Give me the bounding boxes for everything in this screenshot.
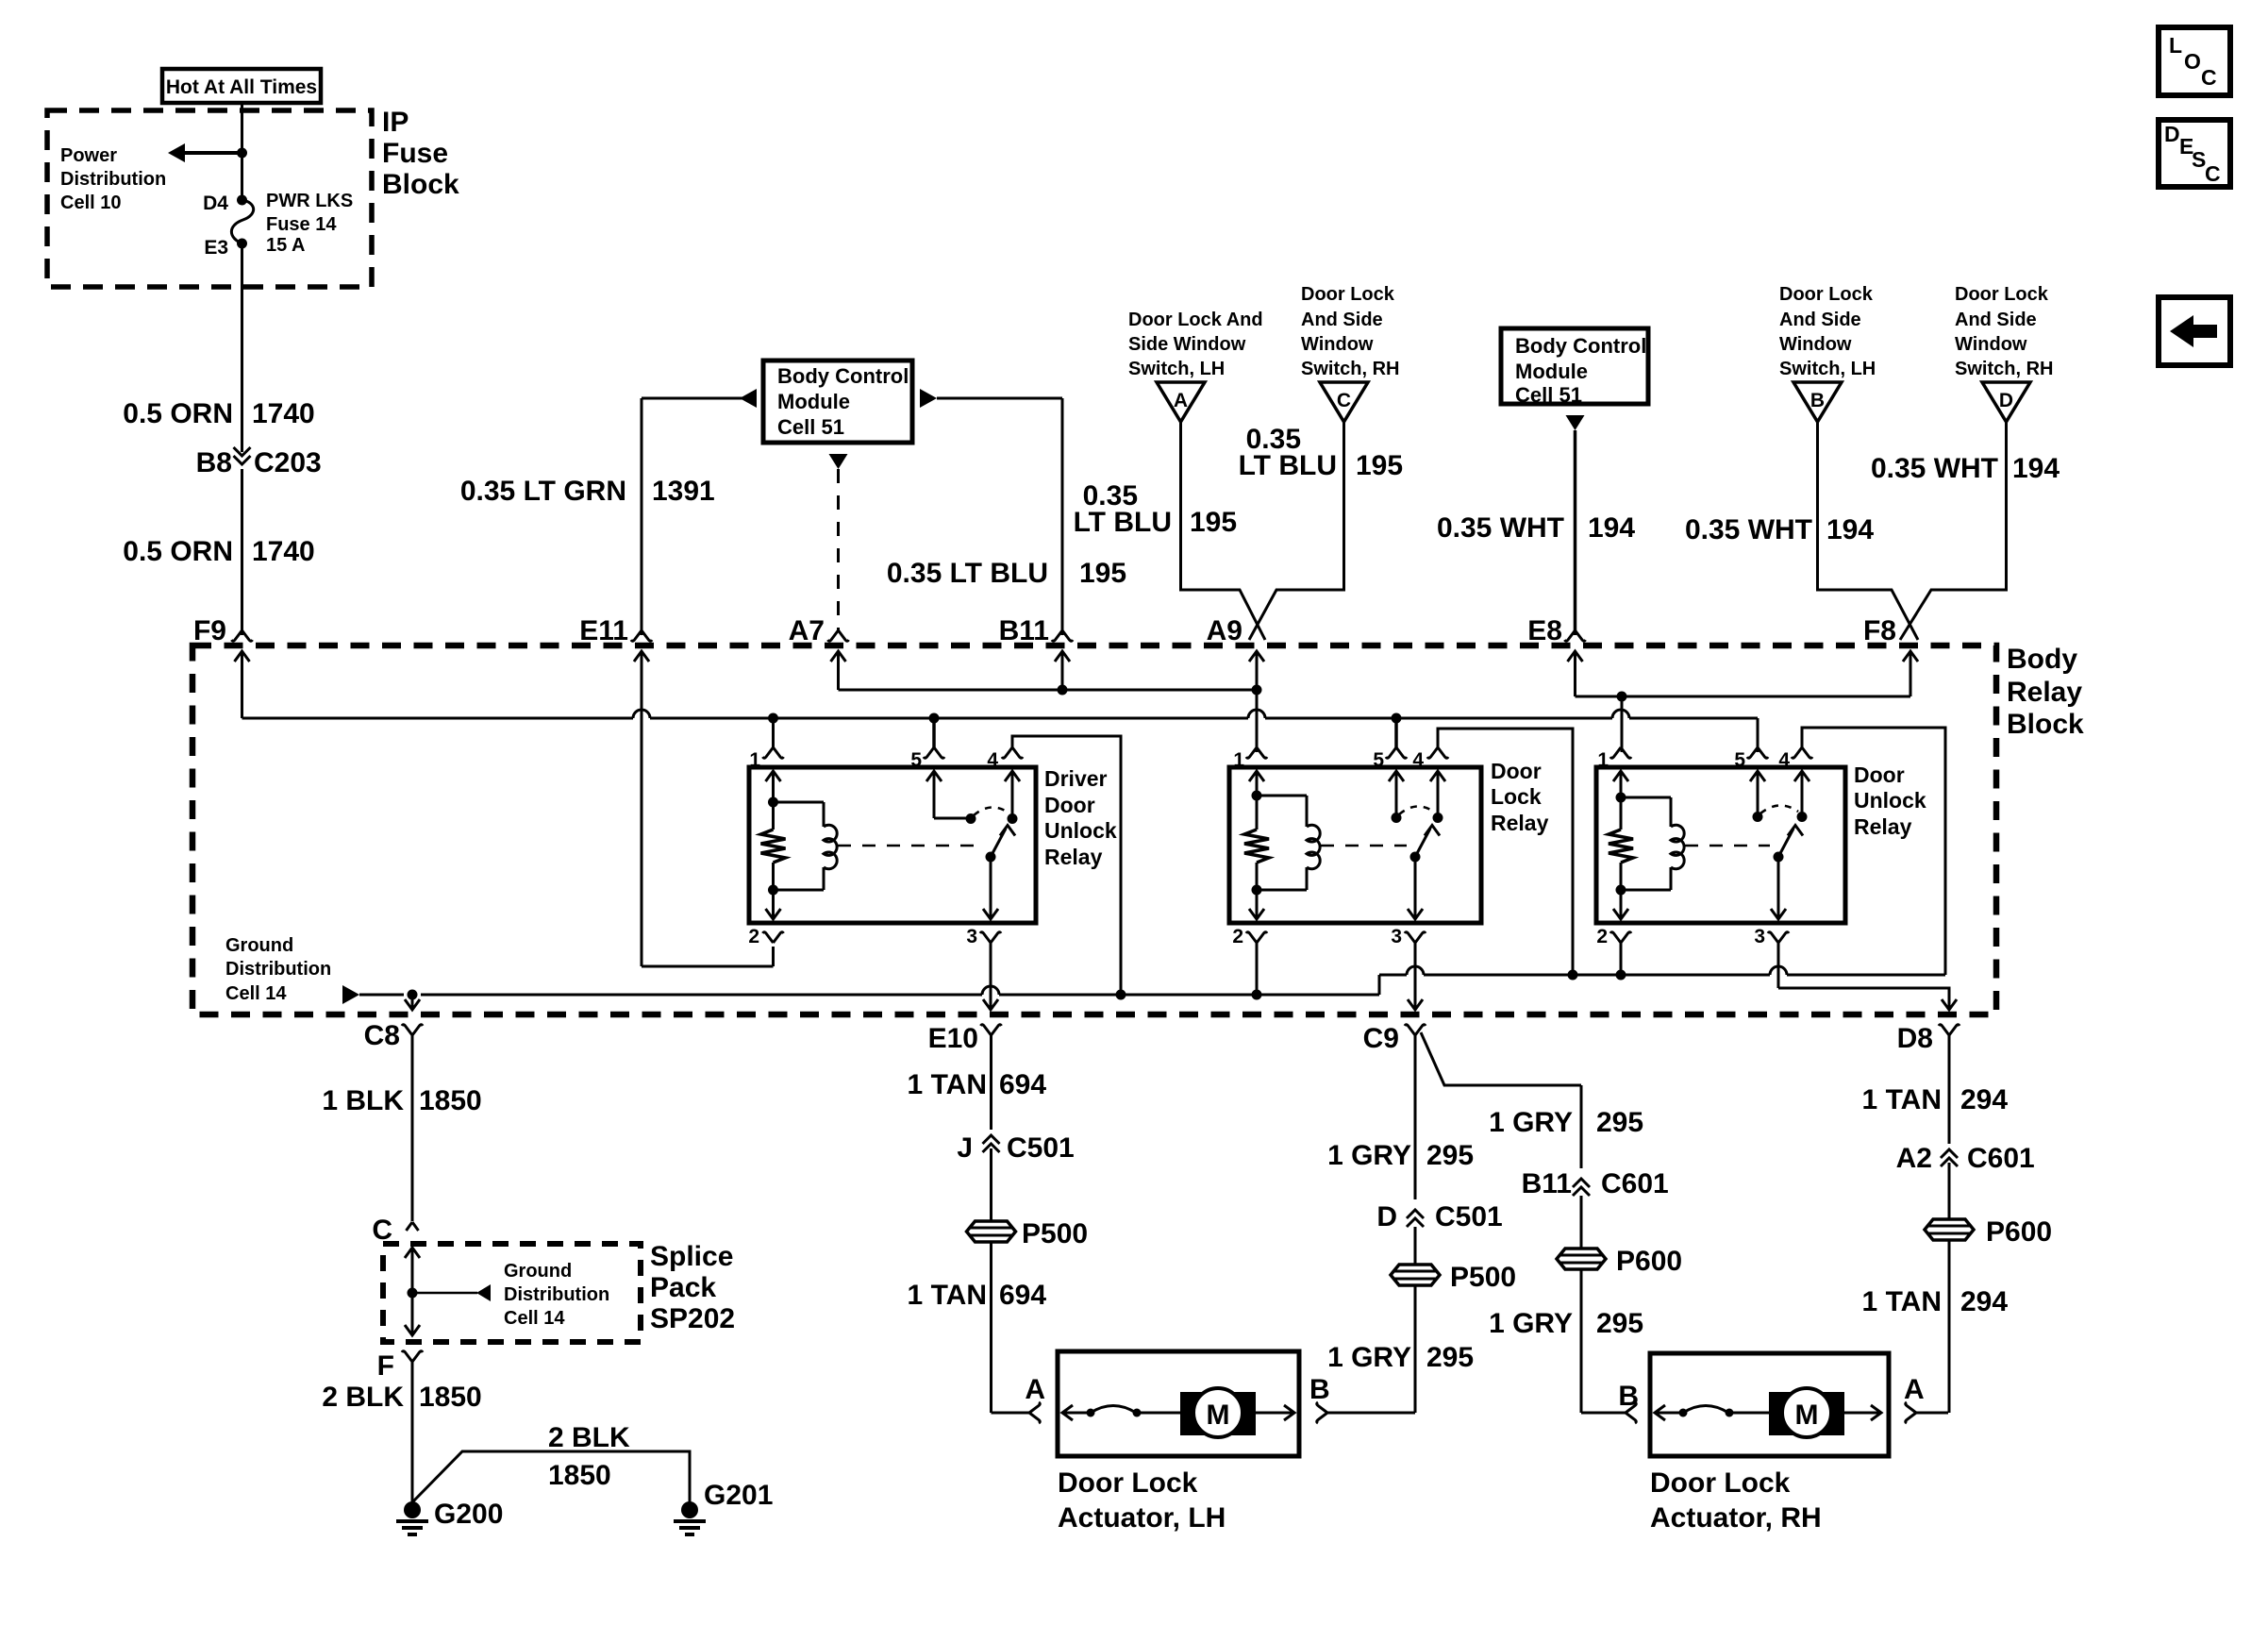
node: relay K2 pin4 to ground wire	[1568, 970, 1578, 981]
svg-text:C203: C203	[254, 447, 322, 478]
Splice Pack SP202 dashed box	[383, 1244, 641, 1342]
connector C601 pin B11 pass-through	[1522, 1168, 1669, 1199]
terminal A of LH actuator	[1025, 1374, 1045, 1405]
svg-text:1 GRY: 1 GRY	[1489, 1308, 1573, 1339]
relay K1 Driver Door Unlock Relay box	[749, 767, 1036, 923]
svg-text:D4: D4	[203, 193, 228, 214]
svg-text:Relay: Relay	[1854, 814, 1912, 839]
svg-text:294: 294	[1960, 1084, 2008, 1115]
label: Driver Door Unlock Relay	[1044, 766, 1117, 869]
wire: reference arrow to Ground Distribution Cell 14	[412, 1284, 491, 1301]
connector B11 at Body Relay Block	[999, 615, 1073, 646]
svg-text:Actuator, RH: Actuator, RH	[1650, 1502, 1822, 1534]
svg-text:PWR LKS: PWR LKS	[266, 191, 353, 211]
svg-text:P500: P500	[1450, 1262, 1516, 1293]
svg-text:5: 5	[1373, 749, 1384, 771]
LOC reference box	[2159, 27, 2230, 95]
motor M of RH actuator	[1769, 1388, 1844, 1437]
node: bus junction relay2 pin5	[1392, 713, 1402, 724]
svg-text:A7: A7	[789, 615, 825, 646]
relay K3 normally-open contact pin 4	[1794, 771, 1809, 822]
svg-text:1 TAN: 1 TAN	[908, 1069, 987, 1100]
wire: F9 entry into block / power bus	[235, 651, 1759, 752]
svg-text:1: 1	[749, 749, 760, 771]
off-page connector triangle A	[1157, 382, 1205, 422]
wire: feed to fuse terminal D4	[241, 153, 243, 200]
svg-text:2: 2	[748, 926, 759, 947]
RH actuator internal pin B arrow	[1655, 1405, 1681, 1420]
svg-text:Body Control: Body Control	[777, 364, 909, 388]
wire: E11 entry down to relay1 pin2 loop	[634, 651, 774, 966]
relay K2 contact dashed throw arc	[1399, 806, 1435, 814]
svg-text:Door Lock And: Door Lock And	[1128, 310, 1263, 330]
terminal B of LH actuator	[1309, 1374, 1415, 1423]
svg-text:194: 194	[2012, 453, 2060, 484]
svg-text:3: 3	[1754, 926, 1765, 947]
svg-text:Switch, LH: Switch, LH	[1779, 359, 1876, 379]
svg-text:A: A	[1904, 1374, 1925, 1405]
svg-text:295: 295	[1426, 1342, 1474, 1373]
LH actuator internal pin B arrow	[1256, 1405, 1294, 1420]
relay K2 coil branch with resistor	[1244, 771, 1269, 919]
svg-text:295: 295	[1426, 1140, 1474, 1171]
svg-text:A: A	[1025, 1374, 1045, 1405]
relay K1 pin 2	[748, 926, 783, 947]
off-page connector triangle B	[1793, 382, 1842, 422]
wire: E10 drop out of block from relay1 pin3	[983, 995, 998, 1010]
relay K1 coil branch with resistor	[761, 771, 786, 919]
connector E11 at Body Relay Block	[579, 615, 652, 646]
connector F below splice pack	[377, 1350, 423, 1382]
node: SP202 splice junction	[408, 1288, 418, 1299]
svg-text:1 GRY: 1 GRY	[1327, 1140, 1411, 1171]
svg-text:Distribution: Distribution	[504, 1284, 609, 1305]
svg-text:0.5 ORN: 0.5 ORN	[123, 398, 233, 429]
node: D4 fuse terminal	[203, 193, 247, 214]
svg-text:195: 195	[1190, 507, 1237, 538]
connector C501 pin D pass-through	[1376, 1201, 1502, 1232]
connector E10 at Body Relay Block bottom	[928, 1023, 1002, 1130]
wire: 0.5 ORN 1740 from C203 to F9	[241, 469, 243, 635]
label: 2 BLK 1850 (branch)	[548, 1422, 630, 1491]
relay K2 pin 2	[1232, 926, 1267, 995]
svg-text:0.35 LT BLU: 0.35 LT BLU	[887, 558, 1048, 589]
svg-text:694: 694	[999, 1280, 1046, 1311]
svg-text:SP202: SP202	[650, 1303, 735, 1334]
wire: 0.35 WHT 194 from switch D to F8	[1871, 422, 2060, 640]
svg-text:Block: Block	[2007, 709, 2084, 740]
grommet P600 (GRY)	[1557, 1246, 1682, 1277]
svg-text:C: C	[2201, 65, 2217, 90]
connector D8 at Body Relay Block bottom	[1897, 1023, 1959, 1054]
wire: 0.35 LT BLU 195 from switch C to A9	[1239, 422, 1403, 640]
svg-text:0.35 WHT: 0.35 WHT	[1871, 453, 1998, 484]
svg-text:C: C	[1337, 390, 1351, 411]
svg-text:B8: B8	[196, 447, 232, 478]
svg-text:D8: D8	[1897, 1023, 1933, 1054]
node: A9 junction on link	[1252, 685, 1262, 696]
svg-text:F9: F9	[193, 615, 226, 646]
svg-text:A2: A2	[1896, 1143, 1932, 1174]
DESC reference box	[2159, 120, 2230, 187]
label: 1 TAN 694 (upper)	[908, 1069, 1047, 1100]
svg-text:A: A	[1174, 390, 1188, 411]
svg-text:4: 4	[1412, 749, 1424, 771]
svg-text:1391: 1391	[652, 476, 715, 507]
svg-text:Distribution: Distribution	[225, 959, 331, 980]
svg-text:0.5 ORN: 0.5 ORN	[123, 536, 233, 567]
motor M of LH actuator	[1180, 1388, 1256, 1437]
svg-text:4: 4	[987, 749, 998, 771]
svg-text:Driver: Driver	[1044, 766, 1108, 791]
svg-text:2 BLK: 2 BLK	[548, 1422, 630, 1453]
relay K3 Door Unlock Relay box	[1596, 767, 1845, 923]
svg-text:3: 3	[966, 926, 977, 947]
svg-text:P500: P500	[1022, 1218, 1088, 1249]
svg-text:C: C	[2205, 161, 2221, 186]
svg-text:Window: Window	[1779, 334, 1852, 355]
wire: battery feed from Hot At All Times into fuse block	[241, 103, 243, 153]
node: bus junction relay1 pin1	[768, 713, 778, 724]
wire: 1 GRY 295 branch C9 to RH actuator B	[1421, 1032, 1581, 1413]
svg-text:1 TAN: 1 TAN	[1862, 1286, 1942, 1317]
svg-text:4: 4	[1778, 749, 1790, 771]
wire: 1 TAN 294 D8 to RH actuator A	[1948, 1035, 1951, 1413]
svg-text:Relay: Relay	[1491, 811, 1549, 835]
label: Body Relay Block	[2007, 644, 2084, 740]
label: Door Lock And Side Window Switch RH	[1301, 284, 1399, 379]
svg-text:Switch, RH: Switch, RH	[1301, 359, 1399, 379]
ground G201	[674, 1480, 773, 1534]
svg-text:Relay: Relay	[1044, 845, 1103, 869]
node: ground junction to C8	[408, 990, 418, 1000]
relay K2 switch common pin 5 contact	[1389, 771, 1404, 823]
svg-text:Cell 14: Cell 14	[504, 1308, 565, 1329]
relay K3 pin 5	[1734, 747, 1768, 771]
label: Door Lock And Side Window Switch LH (B)	[1779, 284, 1876, 379]
svg-text:2: 2	[1596, 926, 1608, 947]
label: 1 TAN 294 (upper)	[1862, 1084, 2009, 1115]
relay K1 pin 3 internal	[983, 857, 998, 919]
svg-text:Hot At All Times: Hot At All Times	[166, 76, 317, 98]
svg-text:Cell 51: Cell 51	[1515, 383, 1582, 407]
relay K1 pin 3	[966, 926, 1001, 995]
svg-text:Distribution: Distribution	[60, 169, 166, 190]
svg-text:1 TAN: 1 TAN	[1862, 1084, 1942, 1115]
wire: 0.35 LT BLU 195 from switch A to A9	[1074, 422, 1265, 640]
svg-text:P600: P600	[1616, 1246, 1682, 1277]
relay K2 pin 3 internal	[1408, 857, 1423, 919]
relay K3 coil winding	[1621, 797, 1684, 890]
svg-text:B11: B11	[999, 615, 1049, 646]
relay K1 pin 4 feed from ground net	[987, 736, 1121, 995]
svg-text:G201: G201	[704, 1480, 773, 1511]
relay K3 coil-to-armature dashed link	[1685, 845, 1770, 847]
wire: reference arrow to Power Distribution Cell 10	[168, 143, 242, 162]
grommet P500 (GRY)	[1391, 1262, 1516, 1293]
RH actuator internal pin A arrow	[1844, 1405, 1881, 1420]
svg-text:Body Control: Body Control	[1515, 334, 1646, 358]
wire: A7 entry to link node	[831, 651, 846, 690]
svg-text:C9: C9	[1363, 1023, 1399, 1054]
label: Door Lock Actuator, LH	[1058, 1467, 1226, 1534]
svg-text:294: 294	[1960, 1286, 2008, 1317]
node: junction to Power Distribution	[237, 148, 247, 159]
svg-text:0.35 WHT: 0.35 WHT	[1685, 514, 1812, 545]
relay K2 coil-to-armature dashed link	[1321, 845, 1407, 847]
svg-text:1 TAN: 1 TAN	[908, 1280, 987, 1311]
relay K2 normally-open contact pin 4	[1430, 771, 1445, 823]
wire: splice pack internal	[405, 1248, 420, 1335]
svg-text:Ground: Ground	[225, 935, 293, 956]
svg-text:B: B	[1810, 390, 1825, 411]
label: 0.5 ORN 1740 (lower)	[123, 536, 314, 567]
wire: 1 TAN 694 to LH actuator A	[992, 1241, 1041, 1423]
svg-text:Ground: Ground	[504, 1261, 572, 1282]
Door Lock Actuator RH box	[1650, 1353, 1889, 1456]
Body Relay Block dashed box	[192, 645, 1996, 1014]
svg-text:194: 194	[1588, 512, 1635, 544]
svg-text:15 A: 15 A	[266, 235, 306, 256]
relay K2 pin 4 feed from ground net	[1412, 729, 1573, 975]
svg-text:Fuse: Fuse	[382, 138, 448, 169]
svg-text:Power: Power	[60, 145, 117, 166]
label: Door Unlock Relay	[1854, 763, 1926, 839]
relay K3 pin 3 internal	[1771, 857, 1786, 919]
wire: 0.35 WHT 194 from switch B to F8	[1685, 422, 1918, 640]
svg-text:Unlock: Unlock	[1044, 818, 1117, 843]
wire: dashed output from BCM to A7	[829, 454, 848, 630]
LH actuator internal switch	[1087, 1406, 1181, 1417]
svg-text:5: 5	[1734, 749, 1745, 771]
wire: ground distribution feed	[342, 966, 1945, 1004]
svg-text:Module: Module	[777, 390, 850, 413]
node: junction relay3 pin1 feed on E8-F8 link	[1617, 692, 1627, 702]
wire: 2 BLK 1850 to G200	[411, 1362, 414, 1510]
svg-text:Body: Body	[2007, 644, 2077, 675]
svg-text:0.35 LT GRN: 0.35 LT GRN	[460, 476, 626, 507]
svg-text:Pack: Pack	[650, 1272, 716, 1303]
svg-text:Door: Door	[1491, 759, 1542, 783]
wire: 0.35 LT BLU 195 from BCM to B11	[887, 389, 1126, 635]
svg-text:5: 5	[910, 749, 922, 771]
svg-text:And Side: And Side	[1301, 310, 1383, 330]
svg-text:1: 1	[1597, 749, 1609, 771]
wire: C9 drop out of block from relay2 pin3	[1408, 999, 1423, 1010]
svg-text:295: 295	[1596, 1308, 1643, 1339]
wire: 1 GRY 295 C9 to LH actuator B	[1414, 1035, 1417, 1413]
relay K2 pin 1	[1233, 747, 1267, 771]
relay K3 pin 1	[1597, 747, 1631, 771]
svg-text:C8: C8	[364, 1020, 400, 1051]
wire: D8 drop out of block from relay3 pin3	[1778, 988, 1957, 1010]
wire: A9 entry down to relay2 pin1	[1249, 651, 1264, 752]
label: Hot At All Times box	[162, 69, 321, 103]
relay K2 switch armature	[1410, 826, 1441, 863]
connector A7 at Body Relay Block	[789, 615, 849, 646]
relay K1 coil winding	[774, 802, 838, 890]
relay K1 pin 5	[910, 718, 944, 771]
off-page connector triangle C	[1320, 382, 1368, 422]
svg-text:1740: 1740	[252, 398, 315, 429]
svg-text:F8: F8	[1863, 615, 1896, 646]
label: 2 BLK 1850	[322, 1382, 481, 1413]
label: 1 GRY 295 (left upper)	[1327, 1140, 1474, 1171]
wire: to P500	[990, 1148, 992, 1222]
wire: link A7-B11-A9 horizontal	[839, 689, 1258, 692]
connector C8 at Body Relay Block bottom	[364, 1020, 423, 1221]
svg-text:Unlock: Unlock	[1854, 788, 1926, 813]
relay K2 coil winding	[1257, 796, 1320, 890]
relay K2 pin 5	[1373, 718, 1407, 771]
svg-text:C601: C601	[1967, 1143, 2035, 1174]
svg-text:D: D	[2164, 122, 2180, 146]
node: bus junction relay1 pin5	[929, 713, 940, 724]
svg-text:Door Lock: Door Lock	[1955, 284, 2049, 305]
relay K1 normally-open contact pin 4	[1005, 771, 1020, 824]
svg-text:Door Lock: Door Lock	[1301, 284, 1395, 305]
label: 0.5 ORN 1740 (upper)	[123, 398, 314, 429]
label: PWR LKS Fuse 14 15 A	[266, 191, 353, 256]
label: Door Lock And Side Window Switch RH (D)	[1955, 284, 2053, 379]
wire: 0.35 WHT 194 from BCM to E8	[1437, 415, 1635, 635]
node: relay K1 pin4 to ground wire	[1116, 990, 1126, 1000]
Body Control Module Cell 51 box (left)	[763, 360, 912, 443]
svg-text:Door: Door	[1854, 763, 1905, 787]
svg-text:L: L	[2169, 33, 2182, 58]
wire: 0.35 LT GRN 1391 from BCM to E11	[460, 389, 757, 635]
back-arrow box	[2159, 297, 2230, 365]
svg-text:E10: E10	[928, 1023, 978, 1054]
label: 1 GRY 295 (left lower)	[1327, 1342, 1474, 1373]
svg-text:Window: Window	[1301, 334, 1374, 355]
svg-text:And Side: And Side	[1779, 310, 1861, 330]
relay K3 pin 2	[1596, 926, 1631, 975]
svg-text:Switch, RH: Switch, RH	[1955, 359, 2053, 379]
label: 1 GRY 295 (right lower)	[1489, 1308, 1643, 1339]
label: Door Lock Relay	[1491, 759, 1549, 835]
connector C601 pin A2 pass-through	[1896, 1143, 2035, 1174]
wire: C8 drop out of block	[405, 995, 420, 1010]
wire: relay3 pin1 drop	[1621, 696, 1624, 752]
grommet P600 (TAN)	[1925, 1216, 2052, 1248]
relay K1 coil-to-armature dashed link	[838, 845, 982, 847]
node: E3 fuse terminal	[204, 237, 247, 259]
relay K3 pin 4 feed from ground net	[1778, 728, 1945, 975]
wire: 0.5 ORN 1740 from fuse E3 to C203	[241, 243, 243, 452]
terminal A of RH actuator	[1904, 1374, 1948, 1423]
svg-text:295: 295	[1596, 1107, 1643, 1138]
svg-text:Door Lock: Door Lock	[1779, 284, 1874, 305]
svg-text:Cell 14: Cell 14	[225, 983, 287, 1004]
svg-text:P600: P600	[1986, 1216, 2052, 1248]
svg-text:C501: C501	[1007, 1132, 1075, 1164]
ground G200	[396, 1499, 503, 1534]
svg-text:C501: C501	[1435, 1201, 1503, 1232]
svg-text:B: B	[1309, 1374, 1330, 1405]
svg-text:Block: Block	[382, 169, 459, 200]
Body Control Module Cell 51 box (right)	[1501, 328, 1648, 407]
relay K2 pin 3	[1391, 926, 1426, 1010]
svg-text:C601: C601	[1601, 1168, 1669, 1199]
svg-text:195: 195	[1356, 450, 1403, 481]
svg-text:1740: 1740	[252, 536, 315, 567]
node: B11 junction on link	[1058, 685, 1068, 696]
splice/connector A9 at Body Relay Block	[1207, 615, 1242, 646]
node: relay K3 pin2 to ground wire	[1616, 970, 1626, 981]
label: Door Lock And Side Window Switch LH	[1128, 310, 1263, 379]
svg-text:Lock: Lock	[1491, 784, 1542, 809]
relay K1 switch armature	[986, 826, 1016, 863]
relay K1 pin 1	[749, 718, 783, 771]
connector C9 at Body Relay Block bottom	[1363, 1023, 1426, 1054]
terminal B of RH actuator	[1581, 1381, 1639, 1423]
label: Ground Distribution Cell 14 (SP202)	[504, 1261, 609, 1329]
connector C501 pin J pass-through	[957, 1132, 1074, 1164]
LH actuator internal pin A arrow	[1062, 1405, 1089, 1420]
svg-text:M: M	[1207, 1400, 1230, 1431]
wire: E8 entry and link to F8	[1568, 651, 1919, 696]
label: 1 BLK 1850	[322, 1085, 481, 1116]
label: 1 TAN 694 (lower)	[908, 1280, 1047, 1311]
svg-text:Side Window: Side Window	[1128, 334, 1246, 355]
svg-text:B: B	[1618, 1381, 1639, 1412]
svg-text:2 BLK: 2 BLK	[322, 1382, 404, 1413]
svg-text:D: D	[1376, 1201, 1397, 1232]
svg-text:IP: IP	[382, 107, 409, 138]
connector C into splice pack	[372, 1215, 418, 1246]
svg-text:2: 2	[1232, 926, 1243, 947]
off-page connector triangle D	[1982, 382, 2030, 422]
relay K3 switch common pin 5 contact	[1750, 771, 1765, 822]
label: IP Fuse Block	[382, 107, 459, 200]
relay K3 switch armature	[1774, 826, 1804, 863]
label: 1 GRY 295 (right upper)	[1489, 1107, 1643, 1138]
svg-text:Door Lock: Door Lock	[1650, 1467, 1791, 1499]
label: Power Distribution Cell 10	[60, 145, 166, 213]
svg-text:Cell 10: Cell 10	[60, 193, 121, 213]
svg-text:LT BLU: LT BLU	[1239, 450, 1337, 481]
svg-text:Actuator, LH: Actuator, LH	[1058, 1502, 1226, 1534]
svg-text:Door Lock: Door Lock	[1058, 1467, 1198, 1499]
svg-text:0.35 WHT: 0.35 WHT	[1437, 512, 1564, 544]
svg-text:D: D	[1999, 390, 2013, 411]
relay K3 contact dashed throw arc	[1760, 805, 1798, 813]
svg-text:Fuse 14: Fuse 14	[266, 214, 337, 235]
label: Splice Pack SP202	[650, 1241, 735, 1334]
relay K1 switch common pin 5 contact	[926, 771, 976, 824]
splice/connector F8 at Body Relay Block	[1863, 615, 1896, 646]
svg-text:M: M	[1795, 1400, 1819, 1431]
svg-text:194: 194	[1826, 514, 1874, 545]
IP Fuse Block dashed box	[47, 110, 372, 287]
svg-text:1 GRY: 1 GRY	[1489, 1107, 1573, 1138]
svg-text:Splice: Splice	[650, 1241, 733, 1272]
svg-text:B11: B11	[1522, 1168, 1572, 1199]
wire: 2 BLK 1850 branch to G201	[412, 1451, 690, 1502]
svg-text:E3: E3	[204, 237, 228, 259]
connector C203 pin B8 pass-through	[196, 447, 322, 478]
Door Lock Actuator LH box	[1058, 1351, 1299, 1456]
svg-text:Relay: Relay	[2007, 677, 2082, 708]
node: relay K2 pin2 to ground wire	[1252, 990, 1262, 1000]
svg-text:1850: 1850	[548, 1460, 611, 1491]
svg-text:3: 3	[1391, 926, 1402, 947]
svg-text:Cell 51: Cell 51	[777, 415, 844, 439]
svg-text:1850: 1850	[419, 1085, 482, 1116]
svg-text:F: F	[377, 1350, 394, 1382]
svg-text:Window: Window	[1955, 334, 2027, 355]
